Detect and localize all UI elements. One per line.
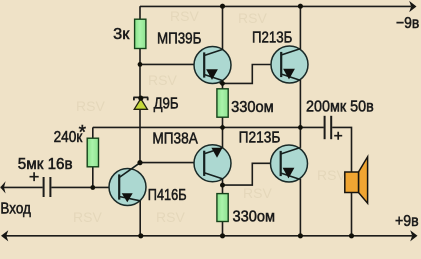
- svg-text:+9в: +9в: [395, 213, 419, 230]
- svg-text:Д9Б: Д9Б: [154, 96, 179, 113]
- svg-text:МП38А: МП38А: [152, 131, 198, 148]
- svg-text:RSV: RSV: [156, 209, 185, 225]
- svg-text:330ом: 330ом: [231, 99, 274, 116]
- svg-text:RSV: RSV: [148, 72, 177, 88]
- svg-text:−9в: −9в: [396, 15, 419, 32]
- svg-text:П416Б: П416Б: [148, 187, 187, 204]
- svg-text:200мк 50в: 200мк 50в: [306, 99, 374, 116]
- svg-text:RSV: RSV: [73, 209, 102, 225]
- svg-text:330ом: 330ом: [233, 209, 276, 226]
- svg-text:RSV: RSV: [76, 98, 105, 114]
- svg-text:RSV: RSV: [243, 185, 272, 201]
- svg-text:П213Б: П213Б: [239, 130, 281, 147]
- svg-text:3к: 3к: [113, 26, 130, 43]
- svg-text:5мк 16в: 5мк 16в: [18, 156, 73, 173]
- svg-text:RSV: RSV: [317, 167, 346, 183]
- svg-text:МП39Б: МП39Б: [157, 31, 201, 48]
- svg-text:*: *: [79, 123, 87, 144]
- svg-text:Вход: Вход: [0, 200, 31, 217]
- svg-text:RSV: RSV: [238, 10, 267, 26]
- svg-text:П213Б: П213Б: [252, 29, 292, 46]
- svg-text:RSV: RSV: [170, 8, 199, 24]
